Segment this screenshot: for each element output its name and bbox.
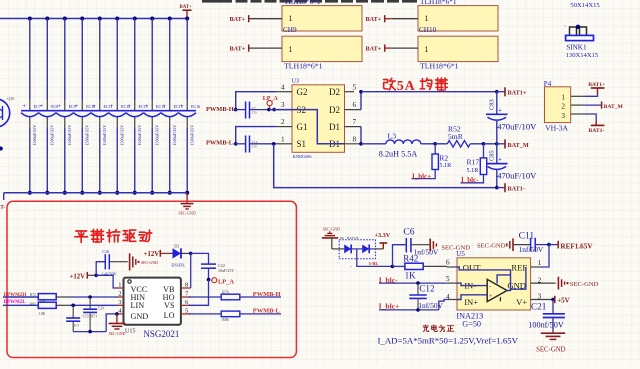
svg-text:2: 2: [118, 291, 121, 298]
svg-text:G2: G2: [297, 87, 308, 97]
net label PWMB-L (U3 side): [206, 140, 245, 147]
svg-text:+: +: [163, 104, 166, 110]
svg-text:C20: C20: [98, 307, 104, 311]
capacitor EC9 1500uF/35V: [56, 17, 76, 195]
svg-text:8.2uH 5.5A: 8.2uH 5.5A: [379, 149, 418, 158]
svg-text:1500uF/35V: 1500uF/35V: [102, 125, 107, 146]
svg-text:1: 1: [281, 135, 285, 143]
U15 pin 8: [181, 282, 191, 289]
wire D1 pins tie to inductor node: [359, 127, 363, 146]
U5 pin 5 IN-: [446, 275, 457, 283]
annotation text 改5A均衡: [384, 78, 448, 94]
svg-text:10uF/25V: 10uF/25V: [218, 268, 234, 273]
svg-text:D6: D6: [340, 236, 344, 240]
P4 pin1 wire to BAT1+: [571, 82, 606, 97]
svg-text:5: 5: [446, 275, 450, 283]
svg-text:~: ~: [350, 264, 352, 268]
capacitor C12 1nf/50V: [409, 283, 443, 310]
svg-text:BAT1-: BAT1-: [508, 186, 525, 193]
capacitor C22 10uF/25V: [201, 263, 234, 279]
svg-text:+3.3V: +3.3V: [375, 232, 391, 239]
svg-text:BAT+: BAT+: [366, 45, 382, 52]
wire filter rail to GND pin4: [73, 312, 119, 333]
svg-text:R76: R76: [222, 290, 228, 294]
connector CH10 box 2: [418, 36, 498, 61]
svg-text:+: +: [40, 104, 43, 110]
svg-text:PWMB-L: PWMB-L: [206, 140, 233, 147]
svg-text:+: +: [110, 104, 113, 110]
svg-text:U5: U5: [456, 250, 465, 258]
svg-text:C6: C6: [403, 226, 414, 237]
net label DPWM2H: [4, 293, 27, 298]
power port BAT+ to CH9 pin1 (row1): [230, 15, 283, 23]
connector CH10 box 1: [418, 6, 498, 31]
power port +12V (bootstrap diode): [144, 250, 173, 258]
cropped label TLH18*6*1 above box 3: [420, 0, 457, 6]
svg-text:R81: R81: [30, 302, 36, 306]
net label BAT-: [0, 205, 5, 211]
svg-text:2: 2: [281, 118, 285, 126]
capacitor C13: [66, 305, 97, 331]
wire G1 tie: [234, 127, 276, 146]
svg-text:6: 6: [446, 258, 450, 266]
wire VS node: [189, 280, 209, 306]
resistor R17 5.1R: [461, 142, 487, 183]
svg-text:1: 1: [118, 282, 121, 289]
wire: capacitor bank bottom bus to BAT-: [4, 193, 187, 200]
wire S1 to BAT1- node: [274, 144, 499, 190]
connector CH9 box 2: [282, 36, 362, 61]
svg-text:+: +: [23, 104, 26, 110]
node stub at left edge: [0, 147, 3, 151]
svg-text:C14: C14: [252, 140, 258, 144]
svg-text:DPWM2L: DPWM2L: [4, 300, 27, 305]
svg-text:BAT1+: BAT1+: [588, 82, 605, 88]
svg-text:S1: S1: [297, 139, 307, 149]
U3 pin 1 (S1): [276, 135, 292, 143]
svg-text:1500uF/35V: 1500uF/35V: [172, 125, 177, 146]
svg-text:SEC-GND: SEC-GND: [570, 281, 599, 288]
svg-text:10R: 10R: [39, 312, 46, 316]
resistor R42 1K: [393, 254, 447, 281]
svg-text:270: 270: [252, 144, 257, 148]
power port BAT+ to CH9 pin1 (row2): [230, 45, 283, 53]
U15 pin 4: [117, 308, 123, 315]
U3 pin 5 (D2): [345, 83, 357, 91]
svg-text:1nf/50V: 1nf/50V: [519, 245, 544, 254]
U3 pin 6 (D2): [345, 101, 362, 109]
svg-text:1500uF/35V: 1500uF/35V: [155, 125, 160, 146]
connector CH9 (TLH18*6*1) box 1: [282, 6, 362, 31]
svg-text:SEC-GND: SEC-GND: [178, 211, 195, 216]
wire BAT_M row: [484, 142, 505, 146]
label 50X14X15: [570, 2, 600, 9]
svg-text:ES1DL: ES1DL: [171, 263, 185, 268]
svg-text:BAT54S: BAT54S: [347, 236, 359, 240]
annotation text 充电为正: [423, 325, 454, 332]
svg-text:C21: C21: [531, 302, 547, 312]
svg-text:I_blc+: I_blc+: [379, 301, 400, 310]
ground SEC-GND (U5 GND pin): [558, 277, 598, 290]
U15 pin 5: [181, 308, 191, 315]
resistor R52 5mR: [435, 124, 483, 147]
capacitor C7: [246, 102, 269, 119]
svg-text:R17: R17: [467, 157, 480, 166]
resistor R76 (HO): [189, 290, 282, 299]
svg-text:BAT+: BAT+: [230, 16, 246, 23]
svg-text:2: 2: [538, 276, 542, 284]
U5 pin 2 GND: [531, 276, 556, 284]
svg-text:P4: P4: [544, 80, 552, 88]
svg-text:1500uF/35V: 1500uF/35V: [190, 125, 195, 146]
ground SEC-GND (C16): [130, 253, 158, 270]
svg-text:1: 1: [289, 45, 293, 54]
capacitor C20: [83, 297, 104, 332]
svg-text:1uF/50V: 1uF/50V: [102, 271, 117, 276]
svg-text:5: 5: [353, 83, 357, 91]
svg-text:1500uF/35V: 1500uF/35V: [50, 125, 55, 146]
capacitor EC12 1500uF/35V: [109, 17, 131, 195]
U15 pin 3: [117, 299, 123, 306]
svg-text:U15: U15: [125, 328, 135, 334]
capacitor EC15 1500uF/35V: [161, 17, 183, 195]
svg-text:L3: L3: [388, 132, 397, 141]
svg-text:5.1R: 5.1R: [439, 162, 452, 169]
svg-text:1: 1: [561, 94, 565, 102]
U15 pin 2: [117, 291, 123, 298]
capacitor C85 470uF/10V: [486, 144, 537, 188]
svg-text:KND020S: KND020S: [293, 154, 312, 159]
svg-text:SEC-GND: SEC-GND: [323, 226, 340, 231]
resistor R81 10R (LIN): [3, 302, 118, 316]
current sense amp U5 INA213 body: [456, 250, 530, 328]
U5 internal wires: [457, 267, 526, 300]
svg-text:I_AD=5A*5mR*50=1.25V,Vref=1.65: I_AD=5A*5mR*50=1.25V,Vref=1.65V: [378, 336, 519, 346]
svg-text:100nf/50V: 100nf/50V: [528, 320, 564, 329]
svg-text:+: +: [75, 104, 78, 110]
svg-text:1500uF/35V: 1500uF/35V: [67, 125, 72, 146]
power port +12V (VCC): [70, 272, 98, 281]
svg-text:TLH18*6*1: TLH18*6*1: [284, 0, 321, 6]
inductor L3 8.2uH 5.5A: [361, 132, 435, 159]
red region outline (balance bridge driver): [7, 201, 296, 357]
capacitor EC7 1500uF/35V: [21, 17, 41, 195]
svg-text:G=50: G=50: [462, 320, 481, 329]
op-amp triangle inside U5: [487, 279, 507, 301]
svg-text:PWMB-L: PWMB-L: [253, 307, 280, 314]
svg-text:C7: C7: [252, 106, 256, 110]
capacitor EC16 1500uF/35V: [178, 17, 200, 195]
svg-text:V+: V+: [516, 297, 527, 307]
svg-text:C11: C11: [519, 230, 535, 241]
capacitor EC14 1500uF/35V: [143, 17, 165, 195]
svg-text:SEC-GND: SEC-GND: [477, 243, 506, 250]
svg-text:R71: R71: [74, 324, 80, 328]
svg-text:IN+: IN+: [464, 297, 478, 307]
power port BAT1+ (C83 node): [497, 87, 527, 96]
diode D2 ES1DL: [171, 243, 190, 267]
svg-text:+: +: [498, 157, 502, 163]
resistor R86 (LO): [189, 311, 282, 322]
svg-text:G1: G1: [297, 122, 308, 132]
power port BAT_M: [505, 139, 529, 149]
label TLH18*6*1 (right column): [420, 61, 459, 70]
net label I_blc+ wire to IN+: [379, 300, 447, 312]
capacitor EC10 1500uF/35V: [74, 17, 96, 195]
power port REF1.65V: [547, 241, 593, 251]
label TLH18*6*1 (left column): [284, 61, 323, 70]
svg-text:1K: 1K: [405, 271, 417, 281]
svg-text:1500uF/35V: 1500uF/35V: [137, 125, 142, 146]
svg-text:I_blc-: I_blc-: [461, 176, 479, 184]
heatsink SINK1 130X14X15: [564, 24, 599, 60]
svg-text:C16: C16: [102, 249, 109, 254]
net label I_blc- wire to IN-: [379, 275, 447, 285]
label CH10: [419, 26, 437, 34]
annotation text 平衡桥驱动: [75, 229, 152, 242]
svg-text:+: +: [128, 104, 131, 110]
svg-text:SEC-GND: SEC-GND: [536, 347, 566, 354]
svg-text:470uF/10V: 470uF/10V: [497, 121, 537, 131]
ground SEC-GND (U15 GND): [109, 314, 126, 336]
svg-text:1nf/50V: 1nf/50V: [418, 301, 443, 310]
svg-text:7: 7: [353, 118, 357, 126]
svg-text:NSG2021: NSG2021: [143, 329, 179, 339]
svg-text:CH9: CH9: [283, 26, 297, 34]
svg-text:TLH18*6*1: TLH18*6*1: [420, 0, 457, 6]
svg-text:+: +: [58, 104, 61, 110]
svg-text:TLH18*6*1: TLH18*6*1: [284, 61, 323, 70]
svg-text:U3: U3: [292, 78, 300, 85]
svg-text:3: 3: [281, 101, 285, 109]
svg-text:5.1R: 5.1R: [467, 167, 480, 174]
svg-text:OUT: OUT: [463, 262, 481, 272]
P4 pin3 wire to BAT1-: [571, 114, 605, 134]
svg-text:1500uF/35V: 1500uF/35V: [120, 125, 125, 146]
svg-text:Q30: Q30: [7, 96, 14, 101]
svg-text:4: 4: [281, 83, 285, 91]
svg-text:REF: REF: [511, 262, 527, 272]
net label I_blc+ (R2): [412, 172, 431, 180]
svg-text:C85: C85: [489, 150, 496, 161]
svg-text:-: -: [489, 283, 491, 290]
resistor R72 10R (HIN): [3, 293, 118, 304]
svg-text:3: 3: [561, 112, 565, 120]
svg-text:+12V: +12V: [144, 251, 160, 258]
svg-text:BAT1+: BAT1+: [508, 89, 527, 96]
ground SEC-GND (under cap bank): [178, 193, 195, 216]
power port BAT1- (C85 node): [497, 183, 525, 192]
svg-text:1: 1: [425, 45, 429, 54]
U3 pin 2 (G1): [276, 118, 292, 126]
U5 pin 6 OUT: [446, 258, 457, 267]
svg-text:CH10: CH10: [419, 26, 437, 34]
svg-text:1: 1: [538, 259, 542, 267]
label CH9: [283, 26, 297, 34]
svg-text:TLH18*6*1: TLH18*6*1: [420, 61, 459, 70]
capacitor C6 1nf/50V: [393, 226, 439, 266]
svg-text:EC16: EC16: [191, 104, 200, 109]
U5 pin 4 IN+: [446, 293, 457, 301]
svg-text:LIN: LIN: [131, 301, 145, 310]
svg-text:I_blc+: I_blc+: [412, 172, 431, 180]
U3 pin 4 (G2): [276, 83, 292, 91]
wire REF pin to C11 node: [541, 245, 549, 267]
P4 pin2 wire to BAT_M: [571, 102, 624, 111]
wire +12V to VCC pin1: [96, 275, 118, 288]
U15 pin 7: [181, 291, 191, 298]
connector P4 VH-3A body: [544, 80, 571, 133]
svg-text:+: +: [498, 108, 502, 114]
svg-text:GND: GND: [131, 312, 149, 321]
capacitor C21 100nf/50V: [528, 300, 565, 333]
resistor R2 5.1R: [412, 142, 453, 179]
svg-text:I-BL: I-BL: [369, 261, 378, 266]
gate driver U15 NSG2021 body: [124, 278, 181, 339]
svg-text:R42: R42: [403, 254, 418, 264]
annotation formula I_AD: [378, 336, 519, 346]
wire G2 tie: [234, 92, 276, 112]
U5 pin 3 V+: [531, 293, 553, 301]
svg-text:1500uF/35V: 1500uF/35V: [32, 125, 37, 146]
svg-text:D2: D2: [174, 243, 179, 248]
power port BAT+ to CH10 pin1 (row2): [366, 45, 419, 53]
svg-text:VH-3A: VH-3A: [545, 124, 568, 133]
U15 pin 6: [181, 299, 191, 306]
svg-text:6: 6: [353, 101, 357, 109]
test point LP_A (driver): [207, 278, 235, 286]
svg-text:D2: D2: [329, 105, 340, 115]
transistor Q30 (cropped at left edge): [0, 96, 14, 127]
svg-text:SINK1: SINK1: [566, 43, 587, 51]
svg-text:D2: D2: [329, 87, 340, 97]
ground SEC-GND (C6): [430, 239, 470, 252]
net label I_blc- (R17): [461, 176, 479, 184]
capacitor EC13 1500uF/35V: [126, 17, 148, 195]
capacitor EC8 1500uF/35V: [39, 17, 59, 195]
svg-text:BAT1-: BAT1-: [589, 128, 605, 134]
pad row of cropped component at top: [202, 0, 417, 3]
ground SEC-GND (C21): [536, 333, 566, 353]
svg-text:SEC-GND: SEC-GND: [109, 332, 126, 336]
power port +3.3V: [375, 232, 391, 249]
test point LP_A (near U3): [263, 96, 279, 111]
svg-text:C83: C83: [489, 99, 496, 110]
net label PWMB-H (driver out): [253, 291, 281, 298]
svg-text:BAT_M: BAT_M: [508, 142, 529, 149]
svg-text:470uF/10V: 470uF/10V: [497, 171, 537, 181]
capacitor C16 1uF/50V: [96, 249, 128, 277]
net label PWMB-L (driver out): [253, 307, 280, 314]
svg-text:+: +: [180, 104, 183, 110]
svg-text:+12V: +12V: [70, 273, 86, 280]
svg-text:270: 270: [252, 110, 257, 114]
svg-text:PWMB-H: PWMB-H: [206, 106, 234, 113]
U3 pin 8 (D1): [345, 135, 362, 143]
net label PWMB-H (U3 side): [206, 106, 245, 113]
U5 pin 1 REF: [531, 259, 542, 267]
net label DPWM2L: [4, 300, 27, 305]
svg-text:C12: C12: [419, 283, 435, 293]
capacitor C11 1nf/50V: [519, 230, 549, 254]
svg-text:+: +: [93, 104, 96, 110]
svg-text:VS: VS: [164, 301, 175, 310]
svg-text:+: +: [145, 104, 148, 110]
svg-text:1: 1: [425, 14, 429, 23]
ground SEC-GND (C11 left): [477, 238, 530, 251]
svg-text:C13: C13: [83, 315, 89, 319]
svg-text:REF1.65V: REF1.65V: [560, 242, 593, 250]
svg-text:D1: D1: [329, 122, 340, 132]
cropped label TLH18*6*1 above box 1: [284, 0, 321, 6]
power port BAT+ (top of capacitor bank): [180, 5, 193, 18]
ground SEC-GND (D6 anode): [322, 226, 344, 249]
svg-text:3: 3: [538, 293, 542, 301]
svg-text:2: 2: [561, 102, 565, 110]
power port BAT+ to CH10 pin1 (row1): [366, 15, 419, 23]
svg-text:PWMB-H: PWMB-H: [253, 291, 281, 298]
svg-text:1500uF/35V: 1500uF/35V: [85, 125, 90, 146]
svg-text:R86: R86: [222, 318, 228, 322]
svg-text:1: 1: [289, 14, 293, 23]
svg-text:LP_A: LP_A: [218, 279, 234, 286]
svg-text:R71: R71: [91, 315, 97, 319]
svg-text:BAT_M: BAT_M: [604, 104, 624, 110]
svg-text:LO: LO: [164, 311, 175, 320]
capacitor C83 470uF/10V: [486, 92, 537, 144]
svg-text:BAT+: BAT+: [230, 45, 246, 52]
svg-text:130X14X15: 130X14X15: [566, 52, 599, 59]
dual MOSFET U3 KND020S body: [292, 78, 345, 160]
svg-text:8: 8: [353, 135, 357, 143]
wire D2 pins tie to BAT1+ node: [359, 90, 363, 110]
svg-text:BAT-: BAT-: [0, 205, 5, 211]
power port +5V: [551, 296, 570, 305]
svg-text:R72: R72: [30, 293, 36, 297]
U15 pin 1: [117, 282, 123, 289]
svg-text:SEC-GND: SEC-GND: [141, 261, 158, 265]
U3 pin 7 (D1): [345, 118, 362, 126]
svg-text:5mR: 5mR: [448, 132, 464, 141]
capacitor C14: [246, 136, 276, 153]
wire D2 node to BAT1+: [361, 90, 499, 94]
svg-text:50X14X15: 50X14X15: [570, 2, 600, 9]
wire S2 to D1 crossing inside U3: [276, 110, 345, 144]
wire: BAT+ top bus: [0, 18, 187, 20]
U3 pin 3 (S2): [276, 101, 292, 109]
wire VB boost node: [189, 252, 209, 288]
wire I-BL net with label: [350, 249, 394, 269]
capacitor EC11 1500uF/35V: [91, 17, 113, 195]
svg-text:BAT+: BAT+: [366, 16, 382, 23]
dual diode D6 BAT54S: [339, 236, 375, 259]
svg-text:+5V: +5V: [557, 296, 570, 304]
